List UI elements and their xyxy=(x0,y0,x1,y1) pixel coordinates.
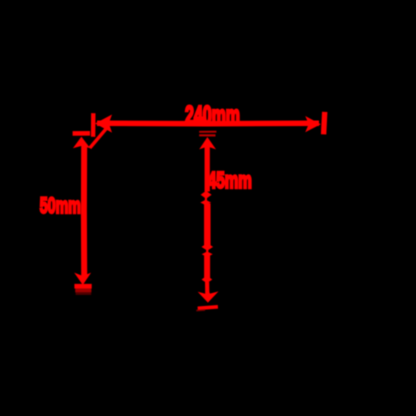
bottom arrowhead of H xyxy=(74,273,91,285)
wire neck into bottom arrow of M xyxy=(205,282,209,294)
bottom arrowhead of M xyxy=(198,288,219,302)
diagonal leader stroke xyxy=(90,127,108,148)
wire left vertical dimension line H xyxy=(81,144,87,276)
pinch junction 2 down arrowhead xyxy=(202,243,214,251)
svg-text:45mm: 45mm xyxy=(208,167,252,193)
wire middle dimension segment 1 xyxy=(205,147,210,192)
top arrowhead of H xyxy=(73,137,90,149)
pinch junction 1 up arrowhead xyxy=(200,200,211,206)
pinch junction 3 down arrowhead xyxy=(202,276,213,283)
wire middle dimension segment 3 xyxy=(204,256,210,279)
left extension bar of W xyxy=(91,113,96,137)
left arrowhead of W xyxy=(95,115,112,133)
top arrowhead of M xyxy=(199,137,216,149)
top extension bar of H xyxy=(73,131,90,136)
pinch junction 1 down arrowhead xyxy=(201,191,212,199)
wire middle dimension segment 2 xyxy=(204,204,211,247)
right extension bar of W xyxy=(324,112,325,134)
bottom extension bar of H xyxy=(74,284,91,289)
bottom extension bar of M xyxy=(198,307,218,309)
bottom thin dark tail of M xyxy=(196,309,205,312)
pinch junction 2 up arrowhead xyxy=(202,251,213,257)
double bar terminator at top of middle dimension M xyxy=(199,131,216,133)
bottom dark under-bar of H xyxy=(75,288,91,292)
wire horizontal dimension line W xyxy=(97,121,319,127)
right arrowhead of W xyxy=(305,116,321,132)
svg-text:50mm: 50mm xyxy=(40,193,81,218)
svg-text:240mm: 240mm xyxy=(185,102,240,130)
